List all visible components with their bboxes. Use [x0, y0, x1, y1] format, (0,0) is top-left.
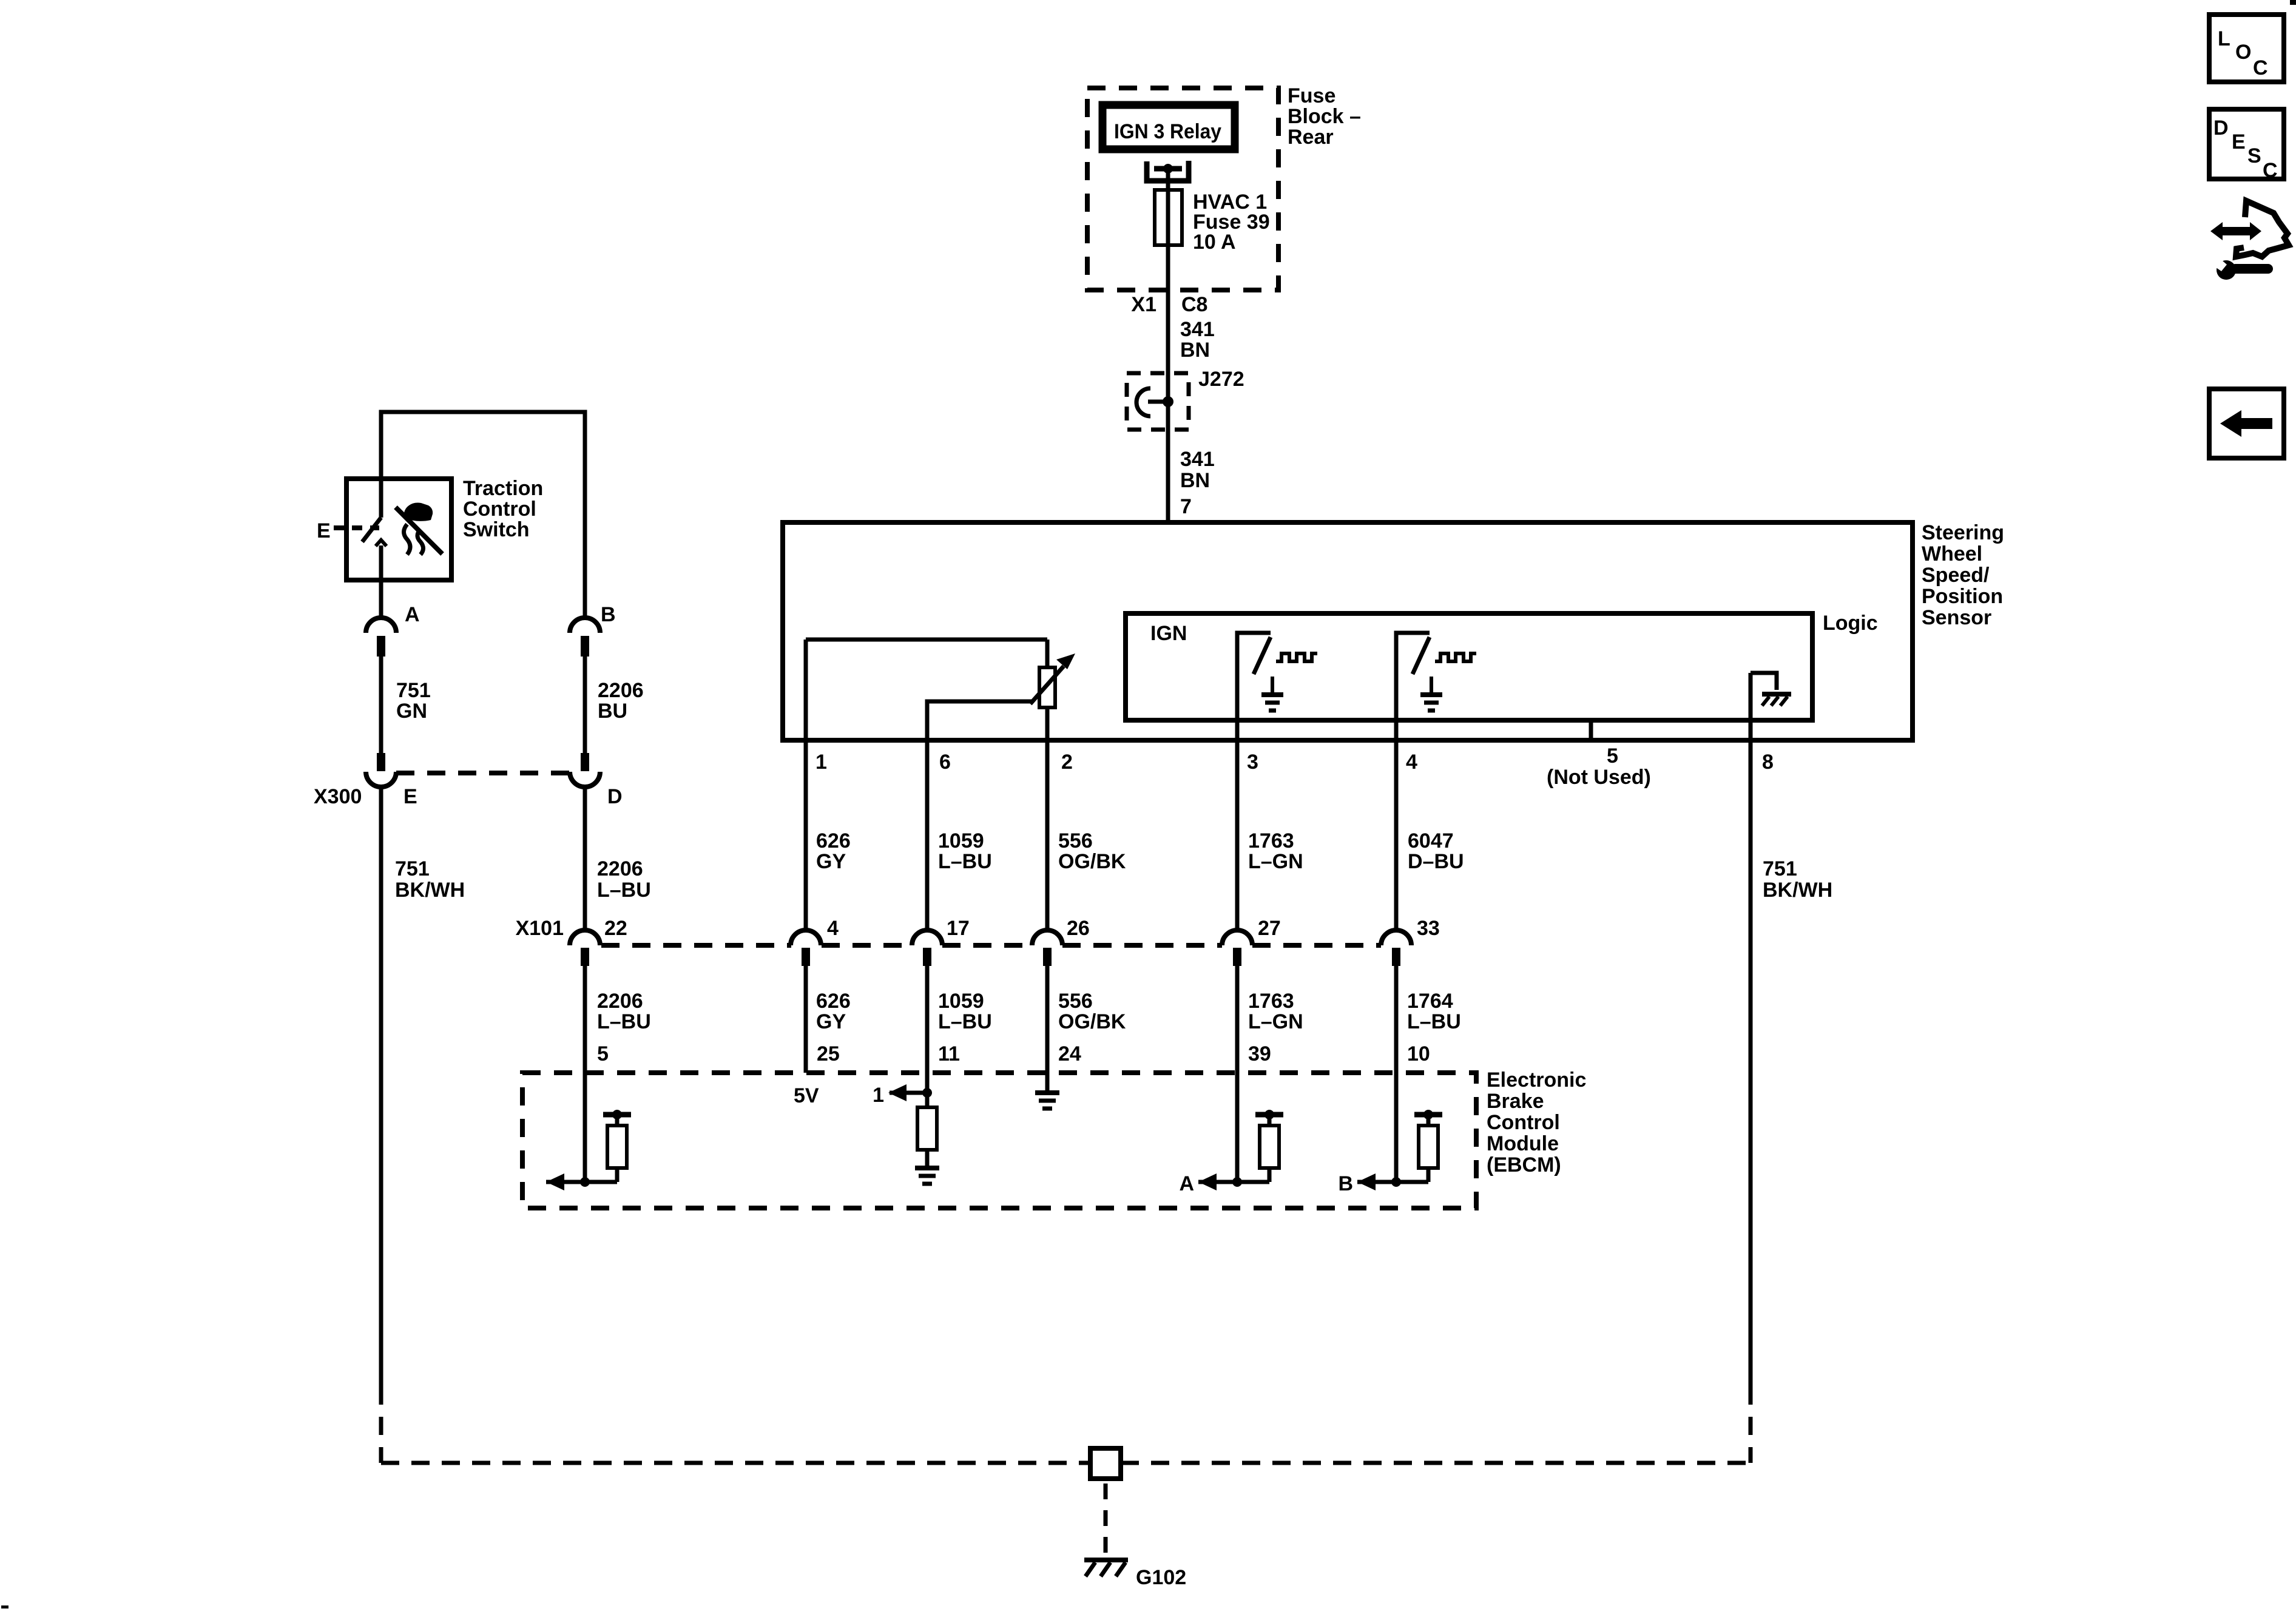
svg-text:BU: BU [598, 700, 627, 723]
dashed stub to G102 [1104, 1484, 1108, 1555]
DESC icon [2209, 109, 2284, 182]
wire 2206 L-BU X300-D to X101-22 [585, 787, 651, 931]
svg-text:G102: G102 [1136, 1566, 1186, 1589]
svg-text:341: 341 [1180, 318, 1215, 341]
wire 626 GY sensor1 to X101-4 [804, 740, 808, 931]
label Traction Control Switch [463, 477, 543, 541]
back arrow icon [2209, 389, 2284, 458]
pin 5 stub not used [1589, 720, 1593, 740]
EBCM pin 11 resistor to ground with arrow 1 [873, 1084, 939, 1184]
svg-text:751: 751 [1763, 857, 1797, 880]
svg-text:X1: X1 [1131, 293, 1156, 316]
svg-text:L–GN: L–GN [1248, 1010, 1303, 1033]
svg-text:2206: 2206 [598, 679, 644, 702]
bottom ground dashed wire [381, 1461, 1751, 1465]
splice J272 [1127, 368, 1244, 430]
wire 556 OG/BK sensor2 to X101-26 [1045, 740, 1050, 931]
wire pin6 internal [927, 701, 1032, 740]
svg-text:25: 25 [817, 1042, 840, 1065]
steering wheel speed position sensor box [783, 522, 1913, 740]
relay terminal [1147, 161, 1189, 181]
svg-text:39: 39 [1248, 1042, 1271, 1065]
svg-text:C: C [2263, 159, 2278, 182]
ground G102 [1084, 1560, 1186, 1589]
svg-text:A: A [405, 603, 420, 626]
svg-text:2206: 2206 [597, 990, 643, 1013]
wire 751 BK/WH sensor8 down right side [1751, 740, 1832, 1463]
svg-text:S: S [2247, 144, 2261, 167]
svg-text:2: 2 [1061, 751, 1073, 774]
svg-text:L–GN: L–GN [1248, 850, 1303, 873]
svg-text:5: 5 [1607, 744, 1618, 768]
svg-text:556: 556 [1058, 990, 1093, 1013]
svg-text:BK/WH: BK/WH [1763, 879, 1832, 902]
svg-text:E: E [403, 785, 417, 808]
svg-text:341: 341 [1180, 448, 1215, 471]
connector row X300 [314, 773, 571, 808]
svg-text:GN: GN [396, 700, 427, 723]
svg-text:BK/WH: BK/WH [395, 879, 465, 902]
svg-text:B: B [601, 603, 616, 626]
svg-text:Rear: Rear [1288, 126, 1334, 149]
connector view icon [2210, 201, 2289, 280]
wire 1763 L-GN X101-27 to EBCM-39 [1235, 966, 1240, 1182]
potentiometer [1030, 640, 1075, 740]
switch E dashed lead [317, 519, 379, 542]
label Fuse Block - Rear [1288, 84, 1361, 149]
internal ground pin 8 hook [1751, 673, 1791, 740]
svg-text:Wheel: Wheel [1922, 542, 1982, 565]
svg-text:D–BU: D–BU [1408, 850, 1464, 873]
svg-text:Brake: Brake [1487, 1090, 1544, 1113]
svg-text:L–BU: L–BU [938, 1010, 992, 1033]
svg-text:6047: 6047 [1408, 829, 1454, 852]
connector X101-33 [1381, 917, 1440, 966]
svg-text:A: A [1179, 1172, 1194, 1195]
connector X300-E [366, 753, 417, 808]
wire 626 GY X101-4 to EBCM-25 [804, 966, 808, 1073]
connector X101-4 [791, 917, 839, 966]
connector B [570, 603, 616, 657]
svg-text:10 A: 10 A [1193, 231, 1236, 254]
wire 1764 L-BU X101-33 to EBCM-10 [1394, 966, 1399, 1182]
svg-text:C8: C8 [1181, 293, 1207, 316]
connector X101-17 [912, 917, 970, 966]
wire 1059 L-BU sensor6 to X101-17 [925, 740, 930, 931]
svg-text:Steering: Steering [1922, 521, 2004, 544]
switch blade [362, 412, 387, 618]
svg-text:5V: 5V [794, 1084, 819, 1107]
svg-text:BN: BN [1180, 469, 1210, 492]
svg-text:1059: 1059 [938, 990, 984, 1013]
svg-text:6: 6 [939, 751, 951, 774]
wire 1763 L-GN sensor3 to X101-27 [1235, 740, 1240, 931]
svg-text:4: 4 [827, 917, 839, 940]
wire 751 GN A to X300-E [379, 657, 383, 753]
svg-text:33: 33 [1417, 917, 1440, 940]
svg-text:BN: BN [1180, 339, 1210, 362]
svg-text:1: 1 [873, 1084, 884, 1107]
svg-text:2206: 2206 [597, 857, 643, 880]
svg-text:Switch: Switch [463, 518, 530, 541]
svg-text:1763: 1763 [1248, 990, 1294, 1013]
fuse block rear dashed box [1087, 88, 1278, 290]
svg-text:GY: GY [816, 1010, 846, 1033]
wire 2206 BU B to X300-D [583, 657, 587, 753]
svg-text:C: C [2253, 56, 2268, 79]
svg-text:4: 4 [1406, 751, 1417, 774]
svg-text:E: E [2232, 130, 2246, 154]
EBCM pin 5 pull-up resistor and arrow [546, 1110, 631, 1190]
svg-text:L–BU: L–BU [597, 1010, 651, 1033]
wire pin1 internal [806, 640, 1047, 740]
svg-text:26: 26 [1067, 917, 1090, 940]
svg-text:L: L [2218, 27, 2230, 50]
wire label 341 BN lower [1180, 448, 1215, 492]
wire 341 BN from relay through fuse to sensor [1166, 169, 1170, 522]
svg-text:3: 3 [1247, 751, 1258, 774]
wire 751 BK/WH X300-E down left side [381, 787, 465, 1463]
switch S1 internal (pin 3) [1237, 633, 1317, 740]
traction switch loop wire top [381, 412, 585, 618]
connector X101-27 [1222, 917, 1281, 966]
corner artifact top right [2290, 0, 2296, 5]
svg-text:626: 626 [816, 829, 851, 852]
svg-text:11: 11 [938, 1042, 960, 1065]
G102 ring terminal [1090, 1448, 1121, 1479]
svg-text:Fuse: Fuse [1288, 84, 1335, 107]
label Electronic Brake Control Module (EBCM) [1487, 1068, 1586, 1176]
svg-text:751: 751 [396, 679, 431, 702]
svg-text:OG/BK: OG/BK [1058, 1010, 1126, 1033]
EBCM pin 10 pull-up resistor with arrow B [1338, 1110, 1442, 1195]
svg-text:1059: 1059 [938, 829, 984, 852]
svg-text:626: 626 [816, 990, 851, 1013]
traction control switch box [346, 479, 451, 580]
svg-text:IGN: IGN [1150, 622, 1187, 645]
wire 1059 L-BU X101-17 to EBCM-11 [925, 966, 930, 1093]
connector X101-26 [1032, 917, 1090, 966]
svg-text:(Not Used): (Not Used) [1547, 766, 1651, 789]
wire label 341 BN upper [1180, 318, 1215, 362]
connector row X101 [516, 917, 1381, 945]
connector X101-22 [570, 917, 627, 966]
svg-text:7: 7 [1180, 495, 1192, 518]
svg-text:O: O [2235, 41, 2251, 64]
label Steering Wheel Speed/Position Sensor [1922, 521, 2004, 629]
svg-text:17: 17 [947, 917, 970, 940]
EBCM dashed box [522, 1073, 1476, 1208]
connector A [366, 603, 420, 657]
traction off icon [396, 503, 442, 555]
svg-text:L–BU: L–BU [938, 850, 992, 873]
relay IGN 3 Relay [1102, 105, 1235, 149]
sensor pin 5 label (Not Used) [1547, 744, 1651, 789]
svg-text:1763: 1763 [1248, 829, 1294, 852]
svg-text:IGN 3 Relay: IGN 3 Relay [1114, 120, 1221, 143]
svg-text:Control: Control [1487, 1111, 1560, 1134]
svg-text:Block –: Block – [1288, 105, 1361, 128]
svg-text:1764: 1764 [1407, 990, 1453, 1013]
svg-text:1: 1 [815, 751, 827, 774]
connector label X1 C8 [1131, 293, 1207, 316]
wire 556 OG/BK X101-26 to EBCM-24 [1045, 966, 1050, 1090]
svg-text:J272: J272 [1198, 368, 1244, 391]
wire 2206 L-BU X101-22 to EBCM-5 [583, 966, 587, 1182]
svg-text:X300: X300 [314, 785, 362, 808]
svg-text:Electronic: Electronic [1487, 1068, 1586, 1092]
svg-text:D: D [2213, 116, 2229, 140]
svg-text:Position: Position [1922, 585, 2003, 608]
svg-text:L–BU: L–BU [1407, 1010, 1461, 1033]
EBCM pin 39 pull-up resistor with arrow A [1179, 1110, 1283, 1195]
svg-text:751: 751 [395, 857, 430, 880]
svg-text:5: 5 [597, 1042, 609, 1065]
svg-text:22: 22 [604, 917, 627, 940]
svg-text:E: E [317, 519, 331, 542]
svg-text:B: B [1338, 1172, 1353, 1195]
switch S2 internal (pin 4) [1396, 633, 1476, 740]
svg-text:27: 27 [1258, 917, 1281, 940]
wire 6047 D-BU sensor4 to X101-33 [1394, 740, 1399, 931]
svg-text:GY: GY [816, 850, 846, 873]
svg-text:Logic: Logic [1823, 612, 1878, 635]
logic box [1126, 613, 1812, 720]
svg-text:Speed/: Speed/ [1922, 564, 1990, 587]
svg-text:X101: X101 [516, 917, 564, 940]
svg-text:L–BU: L–BU [597, 879, 651, 902]
svg-text:8: 8 [1762, 751, 1774, 774]
svg-text:OG/BK: OG/BK [1058, 850, 1126, 873]
EBCM pin 24 ground [1035, 1093, 1059, 1109]
fuse HVAC 1 Fuse 39 10 A [1155, 190, 1270, 254]
svg-text:Sensor: Sensor [1922, 606, 1991, 629]
svg-text:Control: Control [463, 498, 536, 521]
svg-text:10: 10 [1407, 1042, 1430, 1065]
svg-text:(EBCM): (EBCM) [1487, 1153, 1561, 1176]
svg-text:Module: Module [1487, 1132, 1559, 1155]
LOC icon [2209, 15, 2284, 82]
svg-text:24: 24 [1058, 1042, 1081, 1065]
corner artifact bottom left [1, 1605, 8, 1609]
svg-text:Traction: Traction [463, 477, 543, 500]
connector X300-D [570, 753, 623, 808]
svg-text:556: 556 [1058, 829, 1093, 852]
svg-text:D: D [607, 785, 623, 808]
